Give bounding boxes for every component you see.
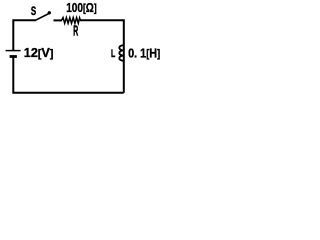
switch S blade bbox=[34, 13, 49, 20]
svg-text:12[V]: 12[V] bbox=[24, 45, 54, 60]
wire: coil bottom + right vertical + bottom wire + left vertical up to battery bbox=[13, 58, 124, 93]
svg-text:L: L bbox=[111, 48, 115, 60]
wire: switch right contact to resistor bbox=[54, 19, 63, 21]
battery positive plate (long) bbox=[6, 50, 21, 52]
svg-text:S: S bbox=[31, 4, 36, 18]
wire: left vertical + top-left segment to switch bbox=[13, 20, 35, 50]
resistor R zigzag bbox=[62, 18, 81, 24]
switch S contact dot bbox=[48, 11, 51, 14]
svg-text:0. 1[H]: 0. 1[H] bbox=[128, 45, 160, 60]
wire: resistor to top-right corner + right vertical down to coil bbox=[80, 20, 124, 93]
battery negative plate (short thick) bbox=[10, 55, 17, 58]
inductor L coil bbox=[119, 45, 124, 61]
svg-text:R: R bbox=[73, 23, 78, 39]
svg-text:100[Ω]: 100[Ω] bbox=[66, 0, 97, 15]
